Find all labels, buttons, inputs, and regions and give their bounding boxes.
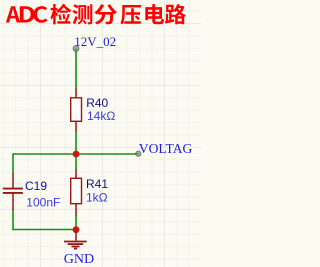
wire stub over 12V_02 flag dot [75, 48, 77, 52]
wire: capacitor left vertical upper [12, 153, 14, 173]
title: ADC检测分压电路 [6, 4, 186, 25]
svg-text:100nF: 100nF [26, 195, 60, 209]
junction node GND [73, 226, 80, 233]
wire: node to VOLTAG label (right horizontal) [76, 153, 139, 155]
resistor R40 [71, 88, 82, 132]
svg-text:VOLTAG: VOLTAG [139, 141, 193, 156]
svg-text:14kΩ: 14kΩ [87, 109, 115, 123]
wire: R40 pin 2 down through node to R41 pin 1 [75, 132, 77, 170]
wire stub over VOLTAG pin dot [135, 153, 139, 155]
wire: capacitor left vertical lower [12, 210, 14, 231]
svg-text:C19: C19 [25, 179, 47, 193]
wire: node to capacitor branch (left horizontal) [13, 153, 76, 155]
capacitor C19 [3, 173, 23, 210]
svg-text:GND: GND [64, 252, 94, 267]
wire: bottom horizontal to GND node [13, 229, 76, 231]
net label VOLTAG pin dot [136, 151, 141, 156]
svg-text:R41: R41 [86, 177, 108, 191]
svg-text:1kΩ: 1kΩ [86, 190, 108, 204]
wire: 12V_02 flag down to R40 pin 1 [75, 49, 77, 90]
svg-text:R40: R40 [86, 96, 108, 110]
ground GND flag [64, 230, 87, 249]
power flag 12V_02 pin dot [73, 46, 79, 52]
resistor R41 [71, 169, 82, 215]
junction node A (R40/R41/C19/VOLTAG) [73, 151, 80, 158]
svg-text:12V_02: 12V_02 [74, 34, 116, 49]
wire: R41 pin 2 down to GND node [75, 215, 77, 230]
